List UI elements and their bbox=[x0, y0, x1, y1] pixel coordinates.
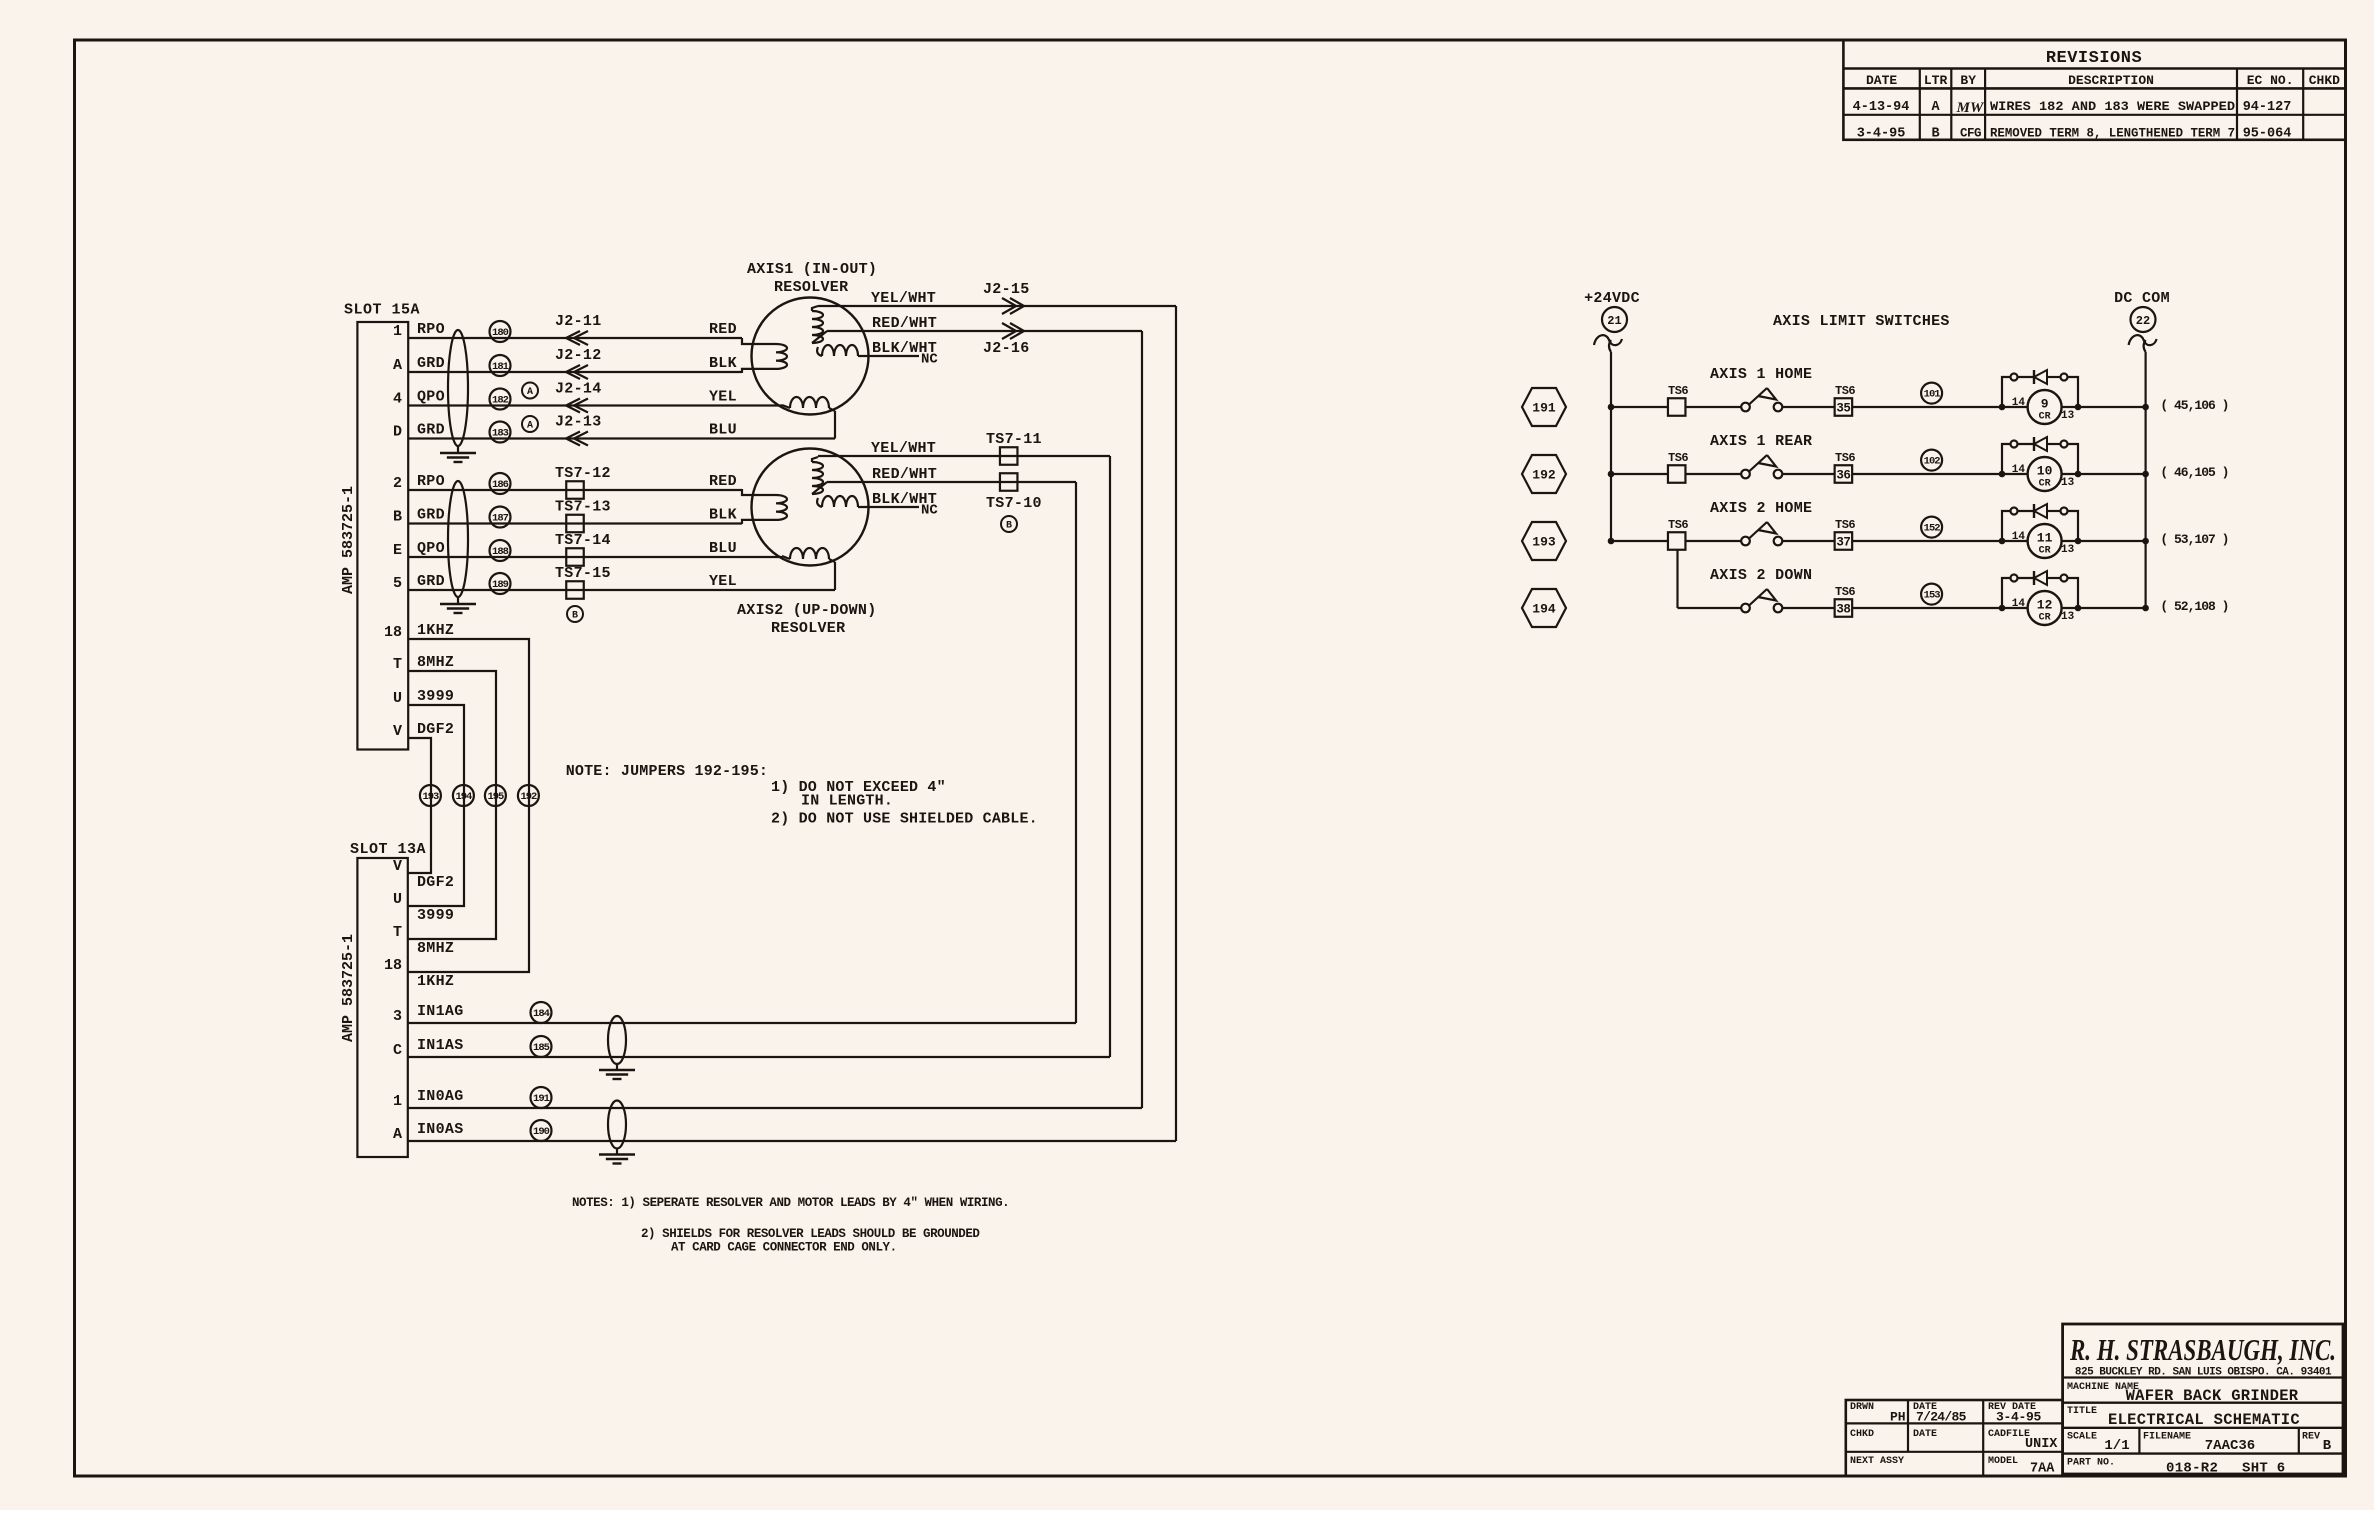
svg-text:NC: NC bbox=[921, 503, 938, 519]
svg-text:3999: 3999 bbox=[417, 907, 454, 924]
svg-text:( 46,105 ): ( 46,105 ) bbox=[2160, 465, 2228, 480]
svg-text:R. H. STRASBAUGH, INC.: R. H. STRASBAUGH, INC. bbox=[2069, 1332, 2336, 1367]
svg-text:184: 184 bbox=[533, 1008, 550, 1020]
label AXIS 2 DOWN bbox=[1710, 567, 1812, 584]
svg-text:NEXT ASSY: NEXT ASSY bbox=[1850, 1456, 1904, 1467]
cable shield (IN1 pair) bbox=[608, 1016, 626, 1064]
relay coil 10CR bbox=[1999, 457, 2149, 491]
svg-text:WIRES 182 AND 183 WERE SWAPPED: WIRES 182 AND 183 WERE SWAPPED bbox=[1990, 99, 2235, 114]
svg-text:YEL: YEL bbox=[709, 573, 737, 590]
svg-text:EC NO.: EC NO. bbox=[2247, 73, 2294, 88]
svg-text:194: 194 bbox=[1532, 602, 1556, 617]
label AXIS 1 REAR bbox=[1710, 433, 1812, 450]
terminal TS6-37 bbox=[1782, 518, 2002, 550]
jumper wire 3999 (#194) 15A pin U to 13A pin U bbox=[393, 688, 474, 924]
svg-text:B: B bbox=[1931, 127, 1939, 142]
svg-text:RPO: RPO bbox=[417, 473, 445, 490]
wire IN0AG pin 1 (#191) bbox=[393, 1087, 1142, 1110]
svg-text:A: A bbox=[1931, 100, 1940, 115]
connector SLOT 13A bbox=[350, 841, 426, 1157]
wire number 153 bbox=[1921, 584, 1942, 605]
limit switch AXIS 1 REAR bbox=[1741, 455, 1782, 478]
wire GRD pin D (#183, J2-13) bbox=[393, 414, 835, 446]
svg-text:AT CARD CAGE CONNECTOR END ONL: AT CARD CAGE CONNECTOR END ONLY. bbox=[671, 1241, 897, 1255]
node 191 (hex reference) bbox=[1522, 388, 1566, 426]
svg-text:T: T bbox=[393, 656, 402, 673]
svg-text:4: 4 bbox=[393, 391, 402, 408]
label BLK bbox=[709, 355, 737, 372]
wire YEL/WHT (J2-15) bbox=[818, 281, 1176, 1141]
svg-text:DC COM: DC COM bbox=[2114, 290, 2170, 307]
svg-text:185: 185 bbox=[533, 1042, 550, 1054]
svg-text:10: 10 bbox=[2037, 464, 2053, 479]
svg-text:J2-14: J2-14 bbox=[555, 381, 602, 398]
svg-text:7AAC36: 7AAC36 bbox=[2205, 1438, 2255, 1454]
svg-text:AXIS 2 DOWN: AXIS 2 DOWN bbox=[1710, 567, 1812, 584]
svg-text:191: 191 bbox=[1532, 401, 1556, 416]
svg-text:AXIS 1 REAR: AXIS 1 REAR bbox=[1710, 433, 1812, 450]
connector SLOT 15A bbox=[344, 302, 420, 750]
power +24VDC node 21 bbox=[1584, 290, 1640, 352]
svg-text:18: 18 bbox=[384, 957, 402, 974]
cable shield (resolver 1 leads) bbox=[448, 330, 468, 446]
svg-text:187: 187 bbox=[492, 513, 509, 525]
svg-text:AMP 583725-1: AMP 583725-1 bbox=[340, 934, 357, 1042]
svg-text:193: 193 bbox=[422, 791, 439, 803]
wire RPO pin 1 (#180, J2-11) bbox=[393, 313, 742, 345]
svg-text:B: B bbox=[2323, 1438, 2332, 1454]
cross-reference ( 52,108 ) bbox=[2160, 599, 2228, 614]
svg-text:J2-13: J2-13 bbox=[555, 414, 602, 431]
svg-text:SLOT 15A: SLOT 15A bbox=[344, 302, 420, 319]
svg-text:RESOLVER: RESOLVER bbox=[774, 279, 848, 296]
relay coil 9CR bbox=[1999, 390, 2149, 424]
limit switch AXIS 1 HOME bbox=[1741, 388, 1782, 411]
revision mark B (near TS7-10) bbox=[1001, 516, 1017, 532]
svg-text:DGF2: DGF2 bbox=[417, 874, 454, 891]
label YEL (resolver 2) bbox=[709, 573, 737, 590]
svg-text:DATE: DATE bbox=[1913, 1429, 1937, 1440]
svg-text:TS6: TS6 bbox=[1835, 451, 1855, 465]
resolver AXIS1 (IN-OUT) bbox=[742, 261, 877, 415]
svg-text:CR: CR bbox=[2039, 613, 2051, 624]
ground (shield 2) bbox=[440, 597, 476, 613]
svg-text:A: A bbox=[527, 387, 533, 398]
node 194 (hex reference) bbox=[1522, 589, 1566, 627]
title block bbox=[2063, 1324, 2343, 1477]
wire GRD pin A (#181, J2-12) bbox=[393, 347, 742, 379]
svg-text:2: 2 bbox=[393, 475, 402, 492]
svg-text:PART NO.: PART NO. bbox=[2067, 1458, 2115, 1469]
svg-text:TS7-15: TS7-15 bbox=[555, 565, 611, 582]
svg-text:NOTE: JUMPERS 192-195:: NOTE: JUMPERS 192-195: bbox=[566, 763, 768, 780]
wire RPO pin 2 (#186, terminal TS7-12) bbox=[393, 465, 742, 499]
svg-text:11: 11 bbox=[2037, 531, 2053, 546]
svg-text:14: 14 bbox=[2012, 598, 2026, 610]
diode bypass (coil 9CR) bbox=[2002, 370, 2078, 407]
svg-text:NC: NC bbox=[921, 352, 938, 368]
svg-text:J2-16: J2-16 bbox=[983, 340, 1030, 357]
ground (IN0 shield) bbox=[599, 1149, 635, 1164]
svg-text:192: 192 bbox=[520, 791, 537, 803]
resolver AXIS2 (UP-DOWN) bbox=[737, 449, 877, 638]
svg-text:CFG: CFG bbox=[1960, 127, 1981, 141]
wire IN1AS pin C (#185) bbox=[393, 1036, 1110, 1059]
svg-text:AXIS2 (UP-DOWN): AXIS2 (UP-DOWN) bbox=[737, 602, 877, 619]
diode bypass (coil 12CR) bbox=[2002, 571, 2078, 608]
svg-text:V: V bbox=[393, 858, 402, 875]
svg-text:DATE: DATE bbox=[1866, 73, 1897, 88]
svg-text:MW: MW bbox=[1956, 100, 1985, 116]
wire IN1AG pin 3 (#184) bbox=[393, 1002, 1076, 1025]
wire rung 4 left bbox=[1678, 550, 1742, 609]
svg-text:188: 188 bbox=[492, 546, 509, 558]
svg-text:IN0AS: IN0AS bbox=[417, 1121, 464, 1138]
svg-text:8MHZ: 8MHZ bbox=[417, 654, 454, 671]
terminal TS6-36 bbox=[1782, 451, 2002, 483]
svg-text:101: 101 bbox=[1924, 389, 1941, 401]
svg-text:13: 13 bbox=[2061, 477, 2075, 489]
svg-text:12: 12 bbox=[2037, 598, 2053, 613]
svg-text:LTR: LTR bbox=[1924, 73, 1948, 88]
svg-text:V: V bbox=[393, 723, 402, 740]
svg-text:U: U bbox=[393, 891, 402, 908]
svg-text:J2-11: J2-11 bbox=[555, 313, 602, 330]
ground (IN1 shield) bbox=[599, 1064, 635, 1079]
svg-text:E: E bbox=[393, 542, 402, 559]
svg-text:A: A bbox=[393, 1126, 402, 1143]
bus +24VDC rail bbox=[1610, 352, 1612, 541]
svg-text:CR: CR bbox=[2039, 546, 2051, 557]
svg-text:REMOVED TERM 8, LENGTHENED TER: REMOVED TERM 8, LENGTHENED TERM 7 bbox=[1990, 127, 2235, 141]
svg-text:3: 3 bbox=[393, 1008, 402, 1025]
svg-text:CHKD: CHKD bbox=[1850, 1429, 1874, 1440]
svg-text:GRD: GRD bbox=[417, 573, 445, 590]
wire QPO pin E (#188, terminal TS7-14) bbox=[393, 532, 782, 566]
bus DC COM rail bbox=[2145, 352, 2147, 608]
label YEL bbox=[709, 389, 737, 406]
revision mark A (wire 182) bbox=[522, 383, 538, 399]
svg-text:9: 9 bbox=[2041, 397, 2049, 412]
svg-text:SHT 6: SHT 6 bbox=[2242, 1461, 2286, 1477]
svg-text:RED/WHT: RED/WHT bbox=[872, 466, 937, 483]
svg-text:AXIS 1 HOME: AXIS 1 HOME bbox=[1710, 366, 1812, 383]
svg-text:192: 192 bbox=[1532, 468, 1556, 483]
svg-text:TS7-12: TS7-12 bbox=[555, 465, 611, 482]
svg-text:SCALE: SCALE bbox=[2067, 1432, 2097, 1443]
power DC COM node 22 bbox=[2114, 290, 2170, 352]
svg-text:TS6: TS6 bbox=[1835, 384, 1855, 398]
wire BLU riser (resolver 1) bbox=[834, 411, 836, 439]
svg-text:194: 194 bbox=[455, 791, 472, 803]
svg-text:22: 22 bbox=[2136, 314, 2150, 328]
cross-reference ( 45,106 ) bbox=[2160, 398, 2228, 413]
relay coil 12CR bbox=[1999, 591, 2149, 625]
svg-text:GRD: GRD bbox=[417, 422, 445, 439]
svg-text:YEL/WHT: YEL/WHT bbox=[871, 440, 936, 457]
terminal TS6-35 bbox=[1782, 384, 2002, 416]
svg-text:+24VDC: +24VDC bbox=[1584, 290, 1640, 307]
svg-text:152: 152 bbox=[1924, 523, 1941, 535]
limit switch AXIS 2 HOME bbox=[1741, 522, 1782, 545]
svg-text:RED: RED bbox=[709, 321, 737, 338]
svg-text:1/1: 1/1 bbox=[2104, 1438, 2129, 1454]
svg-text:193: 193 bbox=[1532, 535, 1556, 550]
svg-text:A: A bbox=[527, 421, 533, 432]
notes bottom bbox=[572, 1196, 1009, 1255]
svg-text:TS7-10: TS7-10 bbox=[986, 495, 1042, 512]
wire rung 3 left bbox=[1608, 518, 1741, 550]
svg-text:YEL: YEL bbox=[709, 389, 737, 406]
svg-text:AXIS LIMIT SWITCHES: AXIS LIMIT SWITCHES bbox=[1773, 313, 1950, 330]
ground (shield 1) bbox=[440, 446, 476, 462]
jumper wire 1KHZ (#192) 15A pin 18 to 13A pin 18 bbox=[384, 622, 539, 990]
svg-text:MODEL: MODEL bbox=[1988, 1456, 2018, 1467]
svg-text:YEL/WHT: YEL/WHT bbox=[871, 290, 936, 307]
svg-text:CR: CR bbox=[2039, 479, 2051, 490]
jumper wire 8MHZ (#195) 15A pin T to 13A pin T bbox=[393, 654, 506, 957]
svg-text:RESOLVER: RESOLVER bbox=[771, 620, 845, 637]
svg-text:1: 1 bbox=[393, 323, 402, 340]
svg-text:GRD: GRD bbox=[417, 507, 445, 524]
svg-text:UNIX: UNIX bbox=[2025, 1437, 2058, 1452]
svg-text:AXIS1 (IN-OUT): AXIS1 (IN-OUT) bbox=[747, 261, 877, 278]
svg-text:BLU: BLU bbox=[709, 540, 737, 557]
svg-text:J2-12: J2-12 bbox=[555, 347, 602, 364]
svg-text:RED: RED bbox=[709, 473, 737, 490]
svg-text:102: 102 bbox=[1924, 456, 1941, 468]
svg-text:QPO: QPO bbox=[417, 540, 445, 557]
svg-text:REVISIONS: REVISIONS bbox=[2046, 49, 2142, 68]
terminal TS6-38 bbox=[1782, 585, 2002, 617]
wire BLK/WHT NC (resolver 1) bbox=[858, 340, 938, 368]
svg-text:7AA: 7AA bbox=[2030, 1462, 2055, 1477]
svg-text:181: 181 bbox=[492, 361, 509, 373]
svg-text:14: 14 bbox=[2012, 531, 2026, 543]
svg-text:C: C bbox=[393, 1042, 402, 1059]
svg-text:5: 5 bbox=[393, 575, 402, 592]
cable shield (resolver 2 leads) bbox=[448, 481, 468, 597]
svg-text:3-4-95: 3-4-95 bbox=[1857, 127, 1906, 142]
svg-text:7/24/85: 7/24/85 bbox=[1916, 1410, 1967, 1425]
svg-text:182: 182 bbox=[492, 395, 509, 407]
svg-text:14: 14 bbox=[2012, 464, 2026, 476]
svg-text:CADFILE: CADFILE bbox=[1988, 1429, 2030, 1440]
title AXIS LIMIT SWITCHES bbox=[1773, 313, 1950, 330]
svg-text:REV: REV bbox=[2302, 1432, 2320, 1443]
svg-text:TS6: TS6 bbox=[1668, 451, 1688, 465]
svg-text:1KHZ: 1KHZ bbox=[417, 973, 454, 990]
label AXIS 1 HOME bbox=[1710, 366, 1812, 383]
svg-text:190: 190 bbox=[533, 1126, 550, 1138]
limit switch AXIS 2 DOWN bbox=[1741, 589, 1782, 612]
wire YEL/WHT (TS7-11) bbox=[818, 431, 1110, 1057]
svg-text:13: 13 bbox=[2061, 544, 2075, 556]
cross-reference ( 53,107 ) bbox=[2160, 532, 2228, 547]
svg-text:BLK: BLK bbox=[709, 355, 737, 372]
svg-text:TS7-13: TS7-13 bbox=[555, 499, 611, 516]
label BLK (resolver 2) bbox=[709, 507, 737, 524]
svg-text:B: B bbox=[393, 509, 402, 526]
svg-text:DESCRIPTION: DESCRIPTION bbox=[2068, 73, 2154, 88]
wire number 102 bbox=[1921, 450, 1942, 471]
revision mark B (below TS7-15) bbox=[567, 606, 583, 622]
wire GRD pin 5 (#189, terminal TS7-15) bbox=[393, 565, 835, 599]
svg-text:38: 38 bbox=[1836, 603, 1850, 617]
cable shield (IN0 pair) bbox=[608, 1101, 626, 1149]
svg-text:IN1AS: IN1AS bbox=[417, 1037, 464, 1054]
svg-text:J2-15: J2-15 bbox=[983, 281, 1030, 298]
wire YEL riser (resolver 2) bbox=[834, 562, 836, 590]
node 192 (hex reference) bbox=[1522, 455, 1566, 493]
svg-text:35: 35 bbox=[1836, 402, 1850, 416]
svg-text:TITLE: TITLE bbox=[2067, 1406, 2097, 1417]
diode bypass (coil 10CR) bbox=[2002, 437, 2078, 474]
wire rung 1 left bbox=[1608, 384, 1741, 416]
svg-text:ELECTRICAL SCHEMATIC: ELECTRICAL SCHEMATIC bbox=[2108, 1411, 2300, 1429]
revision table bbox=[1843, 40, 2345, 142]
svg-text:13: 13 bbox=[2061, 410, 2075, 422]
node 193 (hex reference) bbox=[1522, 522, 1566, 560]
svg-text:QPO: QPO bbox=[417, 389, 445, 406]
svg-text:B: B bbox=[572, 611, 578, 622]
svg-text:RPO: RPO bbox=[417, 321, 445, 338]
svg-text:3-4-95: 3-4-95 bbox=[1996, 1410, 2042, 1425]
svg-text:FILENAME: FILENAME bbox=[2143, 1432, 2191, 1443]
wire QPO pin 4 (#182, J2-14) bbox=[393, 381, 782, 413]
svg-text:A: A bbox=[393, 357, 402, 374]
svg-text:018-R2: 018-R2 bbox=[2166, 1461, 2218, 1477]
svg-text:186: 186 bbox=[492, 479, 509, 491]
svg-text:( 53,107 ): ( 53,107 ) bbox=[2160, 532, 2228, 547]
svg-text:37: 37 bbox=[1836, 536, 1850, 550]
svg-text:2) SHIELDS FOR RESOLVER LEADS: 2) SHIELDS FOR RESOLVER LEADS SHOULD BE … bbox=[641, 1227, 980, 1241]
wire BLK/WHT NC (resolver 2) bbox=[858, 491, 938, 519]
svg-text:14: 14 bbox=[2012, 397, 2026, 409]
svg-text:B: B bbox=[1006, 521, 1012, 532]
svg-text:180: 180 bbox=[492, 327, 509, 339]
label AXIS 2 HOME bbox=[1710, 500, 1812, 517]
label RED (resolver 2) bbox=[709, 473, 737, 490]
svg-text:TS6: TS6 bbox=[1835, 518, 1855, 532]
svg-text:SLOT 13A: SLOT 13A bbox=[350, 841, 426, 858]
svg-text:TS7-11: TS7-11 bbox=[986, 431, 1042, 448]
svg-text:13: 13 bbox=[2061, 611, 2075, 623]
svg-text:GRD: GRD bbox=[417, 355, 445, 372]
svg-text:CHKD: CHKD bbox=[2309, 73, 2340, 88]
svg-text:IN0AG: IN0AG bbox=[417, 1088, 464, 1105]
svg-text:183: 183 bbox=[492, 428, 509, 440]
svg-text:TS6: TS6 bbox=[1668, 518, 1688, 532]
wire GRD pin B (#187, terminal TS7-13) bbox=[393, 499, 742, 533]
svg-text:( 45,106 ): ( 45,106 ) bbox=[2160, 398, 2228, 413]
wire RED/WHT (TS7-10) bbox=[827, 466, 1076, 1023]
svg-text:DRWN: DRWN bbox=[1850, 1402, 1874, 1413]
diode bypass (coil 11CR) bbox=[2002, 504, 2078, 541]
svg-text:18: 18 bbox=[384, 624, 402, 641]
svg-text:BY: BY bbox=[1960, 73, 1976, 88]
svg-text:189: 189 bbox=[492, 579, 509, 591]
svg-text:NOTES: 1) SEPERATE RESOLVER AN: NOTES: 1) SEPERATE RESOLVER AND MOTOR LE… bbox=[572, 1196, 1009, 1210]
svg-text:CR: CR bbox=[2039, 412, 2051, 423]
wire rung 2 left bbox=[1608, 451, 1741, 483]
svg-text:TS6: TS6 bbox=[1668, 384, 1688, 398]
svg-text:IN LENGTH.: IN LENGTH. bbox=[801, 793, 893, 810]
svg-text:94-127: 94-127 bbox=[2243, 100, 2292, 115]
svg-text:DGF2: DGF2 bbox=[417, 721, 454, 738]
svg-text:D: D bbox=[393, 424, 402, 441]
svg-text:BLK: BLK bbox=[709, 507, 737, 524]
note jumpers bbox=[566, 763, 1038, 828]
wire IN0AS pin A (#190) bbox=[393, 1120, 1176, 1143]
svg-text:T: T bbox=[393, 924, 402, 941]
svg-text:U: U bbox=[393, 690, 402, 707]
svg-text:195: 195 bbox=[487, 791, 504, 803]
title block data bbox=[1846, 1400, 2063, 1477]
svg-text:1KHZ: 1KHZ bbox=[417, 622, 454, 639]
svg-text:TS7-14: TS7-14 bbox=[555, 532, 611, 549]
svg-text:AXIS 2 HOME: AXIS 2 HOME bbox=[1710, 500, 1812, 517]
jumper wire DGF2 (#193) 15A pin V to 13A pin V bbox=[393, 721, 454, 891]
connector SLOT 13A reference AMP 583725-1 bbox=[340, 934, 357, 1042]
wire RED/WHT (J2-16) bbox=[827, 315, 1142, 1108]
svg-text:RED/WHT: RED/WHT bbox=[872, 315, 937, 332]
svg-text:191: 191 bbox=[533, 1093, 550, 1105]
wire number 152 bbox=[1921, 517, 1942, 538]
svg-text:1: 1 bbox=[393, 1093, 402, 1110]
svg-text:IN1AG: IN1AG bbox=[417, 1003, 464, 1020]
svg-text:TS6: TS6 bbox=[1835, 585, 1855, 599]
svg-text:4-13-94: 4-13-94 bbox=[1853, 100, 1910, 115]
svg-text:3999: 3999 bbox=[417, 688, 454, 705]
connector SLOT 15A reference AMP 583725-1 bbox=[340, 486, 357, 594]
svg-text:2) DO NOT USE SHIELDED CABLE.: 2) DO NOT USE SHIELDED CABLE. bbox=[771, 811, 1038, 828]
label RED bbox=[709, 321, 737, 338]
label BLU bbox=[709, 422, 737, 439]
label BLU (resolver 2) bbox=[709, 540, 737, 557]
svg-text:8MHZ: 8MHZ bbox=[417, 940, 454, 957]
svg-text:95-064: 95-064 bbox=[2243, 127, 2292, 142]
svg-text:36: 36 bbox=[1836, 469, 1850, 483]
svg-text:( 52,108 ): ( 52,108 ) bbox=[2160, 599, 2228, 614]
svg-text:21: 21 bbox=[1607, 314, 1621, 328]
svg-text:PH: PH bbox=[1890, 1410, 1906, 1425]
cross-reference ( 46,105 ) bbox=[2160, 465, 2228, 480]
wire number 101 bbox=[1921, 383, 1942, 404]
svg-text:AMP 583725-1: AMP 583725-1 bbox=[340, 486, 357, 594]
revision mark A (wire 183) bbox=[522, 416, 538, 432]
relay coil 11CR bbox=[1999, 524, 2149, 558]
svg-text:BLU: BLU bbox=[709, 422, 737, 439]
svg-text:153: 153 bbox=[1924, 590, 1941, 602]
